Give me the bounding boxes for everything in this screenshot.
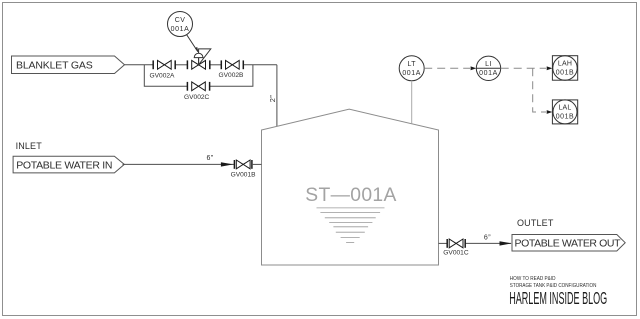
water level symbol [317, 208, 385, 243]
signal line CV to actuator [187, 35, 198, 52]
sense line LT to tank [411, 81, 413, 124]
svg-text:HARLEM INSIDE BLOG: HARLEM INSIDE BLOG [509, 289, 607, 309]
valve GV001C [447, 239, 465, 248]
pipe: inlet into tank [252, 163, 262, 165]
instrument bubble CV 001A [168, 12, 193, 37]
svg-text:OUTLET: OUTLET [517, 218, 554, 228]
svg-text:GV001C: GV001C [443, 250, 469, 257]
svg-text:CV: CV [175, 17, 186, 24]
valve GV002B [221, 60, 243, 69]
svg-text:POTABLE WATER OUT: POTABLE WATER OUT [515, 238, 622, 250]
pipe: outlet line [439, 242, 448, 244]
valve GV002A [153, 60, 175, 69]
signal line LT to LI (dashed) [424, 67, 470, 69]
svg-text:2”: 2” [268, 95, 277, 103]
label POTABLE WATER IN [13, 156, 124, 173]
svg-text:GV002A: GV002A [150, 73, 176, 80]
svg-text:001A: 001A [402, 70, 421, 77]
alarm LAH 001B [552, 56, 577, 80]
svg-text:6”: 6” [484, 235, 491, 242]
pipe: blanket gas main line [125, 64, 277, 66]
svg-text:BLANKLET GAS: BLANKLET GAS [16, 60, 93, 72]
signal line LI to LAH (dashed) [501, 67, 546, 69]
svg-text:GV002B: GV002B [219, 72, 245, 79]
instrument LI 001A [476, 56, 500, 80]
svg-text:LAH: LAH [558, 61, 572, 68]
pipe: inlet line [123, 163, 235, 165]
svg-text:GV002C: GV002C [184, 94, 210, 101]
svg-text:001A: 001A [479, 70, 498, 77]
valve GV001B [234, 160, 252, 169]
svg-text:HOW TO READ P&ID: HOW TO READ P&ID [510, 276, 556, 283]
flow arrow outlet [500, 241, 512, 245]
label POTABLE WATER OUT [512, 235, 625, 252]
svg-text:001B: 001B [556, 114, 575, 121]
flow arrow inlet [221, 162, 233, 166]
svg-text:INLET: INLET [16, 141, 43, 151]
alarm LAL 001B [552, 100, 577, 124]
svg-text:ST—001A: ST—001A [305, 185, 396, 206]
svg-text:001A: 001A [171, 26, 190, 33]
svg-text:LT: LT [407, 61, 416, 68]
signal line branch to LAL (dashed) [533, 68, 546, 112]
label BLANKLET GAS [12, 56, 125, 74]
pipe: 2 inch drop to tank roof [276, 65, 278, 127]
control valve CV001A body [187, 60, 209, 69]
svg-text:POTABLE WATER IN: POTABLE WATER IN [16, 160, 112, 172]
pipe: bypass line [144, 65, 253, 87]
instrument LT 001A [399, 56, 424, 81]
valve GV002C (bypass) [187, 82, 209, 91]
svg-text:LI: LI [485, 61, 492, 68]
control valve CV001A actuator [194, 49, 211, 65]
tank ST-001A [262, 109, 439, 265]
svg-text:6”: 6” [207, 155, 214, 162]
svg-text:001B: 001B [556, 70, 575, 77]
svg-text:GV001B: GV001B [231, 172, 257, 179]
svg-text:LAL: LAL [558, 105, 571, 112]
